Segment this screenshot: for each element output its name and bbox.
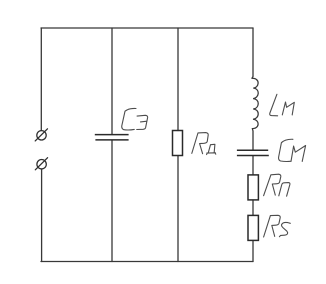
wire Rd branch upper: [177, 28, 179, 131]
resistor Rp body: [248, 175, 258, 200]
label C3 : subscript e: [137, 115, 148, 129]
capacitor Cm plates: [237, 150, 269, 155]
resistor Rd body: [173, 131, 183, 156]
terminal X1 (upper input terminal): [35, 129, 47, 141]
label C3 : letter C: [122, 108, 136, 130]
wire right branch Rp-to-Rs: [252, 200, 254, 215]
capacitor C3 plates: [95, 135, 129, 140]
label Rd : letter R: [192, 133, 208, 154]
wire C3 branch upper: [111, 28, 113, 134]
wire right branch Rs-to-bottom: [252, 241, 254, 262]
wire top bus: [41, 27, 253, 29]
inductor Lm coil: [252, 78, 258, 128]
wire left branch upper: [40, 28, 42, 130]
label Rp : letter R: [264, 174, 281, 196]
label Rs : subscript s: [279, 222, 290, 236]
wire Rd branch lower: [177, 156, 179, 262]
label Lm : subscript m: [282, 102, 294, 115]
label Cm : subscript m: [291, 146, 306, 162]
terminal X2 (lower input terminal): [35, 158, 47, 170]
wire right branch coil-to-cap: [251, 129, 254, 150]
label Rp : subscript p: [279, 183, 290, 197]
label Lm : letter L: [270, 94, 278, 116]
wire right branch cap-to-Rp: [252, 156, 254, 175]
wire C3 branch lower: [111, 140, 113, 261]
label Cm : letter C: [279, 139, 293, 161]
label Rd : subscript d: [207, 144, 216, 154]
wire right branch top: [252, 28, 253, 78]
wire left branch lower: [41, 169, 43, 261]
label Rs : letter R: [264, 215, 281, 237]
resistor Rs body: [248, 215, 258, 240]
wire bottom bus: [41, 261, 253, 263]
